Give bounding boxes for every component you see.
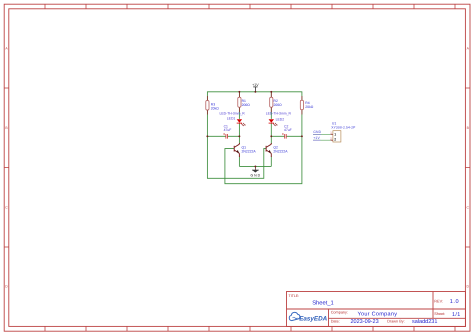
svg-text:2: 2 <box>334 137 336 141</box>
U1 pin 2 lead <box>331 139 333 141</box>
svg-text:TITLE:: TITLE: <box>289 294 300 298</box>
resistor R2 <box>270 92 282 112</box>
U1 pin 1 lead <box>331 133 333 135</box>
svg-text:LED1: LED1 <box>227 116 236 120</box>
wire +1V net to connector pin 2 <box>313 139 331 141</box>
LED LED2 <box>266 112 292 127</box>
resistor R3 <box>206 96 219 115</box>
wire C1 horizontal <box>207 135 239 137</box>
svg-text:saladd231: saladd231 <box>412 319 437 325</box>
junction power stub on +1V rail <box>254 91 256 93</box>
svg-text:REV:: REV: <box>434 300 443 304</box>
capacitor C2 <box>282 125 292 139</box>
frame grid tick marks top <box>45 4 455 9</box>
wire LED2 to Q2 collector <box>270 124 272 145</box>
junction R2 top on +1V rail <box>270 91 272 93</box>
svg-text:20kΩ: 20kΩ <box>305 105 313 109</box>
frame row letters <box>5 47 469 289</box>
svg-text:Sheet_1: Sheet_1 <box>312 299 334 306</box>
svg-text:Company:: Company: <box>331 311 348 315</box>
svg-text:2N2222A: 2N2222A <box>242 150 257 154</box>
wire C2 horizontal <box>271 135 302 137</box>
transistor Q2 <box>266 143 271 157</box>
power flag +1V <box>252 83 259 92</box>
svg-text:200Ω: 200Ω <box>242 103 251 107</box>
wire +V top rail <box>207 92 302 137</box>
svg-text:Drawn By:: Drawn By: <box>387 320 405 324</box>
net label +1V underline <box>313 139 320 141</box>
svg-text:2N2222A: 2N2222A <box>273 150 288 154</box>
svg-text:1: 1 <box>334 132 336 136</box>
svg-text:XY308-2.54-2P: XY308-2.54-2P <box>331 125 356 129</box>
svg-text:Date:: Date: <box>331 320 340 324</box>
svg-text:47uF: 47uF <box>224 128 232 132</box>
wire Q2 emitter to GND rail <box>270 157 272 167</box>
wire R2 column rail to LED2 <box>270 92 272 119</box>
wire GND net to connector pin 1 <box>313 133 331 135</box>
resistor R1 <box>238 92 250 112</box>
wire R1 column rail to LED1 <box>238 92 240 119</box>
wire right column down to Q1 base <box>225 136 302 183</box>
connector U1 XY308-2.54-2P <box>330 122 356 142</box>
junction C1 left node <box>206 135 208 137</box>
svg-text:GND: GND <box>313 130 321 134</box>
svg-text:20kΩ: 20kΩ <box>211 106 219 110</box>
wire LED1 to Q1 collector <box>238 124 240 145</box>
LED LED1 <box>220 112 246 127</box>
svg-text:GND: GND <box>251 173 261 177</box>
svg-text:LED-TH-3mm_R: LED-TH-3mm_R <box>220 112 246 116</box>
resistor R4 <box>300 96 313 115</box>
wire Q1 emitter to GND rail <box>238 157 240 167</box>
transistor Q1 <box>234 143 239 157</box>
junction C2 right node <box>301 135 303 137</box>
frame grid tick marks left <box>4 88 9 247</box>
junction GND node <box>254 165 256 167</box>
frame grid tick marks right <box>465 88 470 247</box>
svg-text:2023-09-23: 2023-09-23 <box>351 319 379 325</box>
frame grid tick marks bottom <box>45 326 455 331</box>
svg-text:Your Company: Your Company <box>358 312 398 318</box>
svg-text:200Ω: 200Ω <box>274 103 283 107</box>
svg-text:47uF: 47uF <box>284 128 292 132</box>
wire left column down to Q2 base <box>207 136 266 178</box>
wire GND rail <box>239 165 271 167</box>
svg-text:EasyEDA: EasyEDA <box>299 316 327 323</box>
svg-text:1/1: 1/1 <box>452 312 461 318</box>
ground flag GND <box>251 166 261 177</box>
junction C1 right node <box>238 135 240 137</box>
svg-text:+1V: +1V <box>313 136 320 140</box>
svg-text:Sheet:: Sheet: <box>434 312 445 316</box>
svg-text:LED-TH-3mm_R: LED-TH-3mm_R <box>266 112 292 116</box>
net label GND underline <box>313 133 321 135</box>
svg-text:LED2: LED2 <box>276 118 285 122</box>
svg-text:1.0: 1.0 <box>450 299 459 305</box>
capacitor C1 <box>223 125 231 139</box>
junction C2 left node <box>270 135 272 137</box>
junction R1 top on +1V rail <box>238 91 240 93</box>
EasyEDA logo <box>289 312 327 322</box>
